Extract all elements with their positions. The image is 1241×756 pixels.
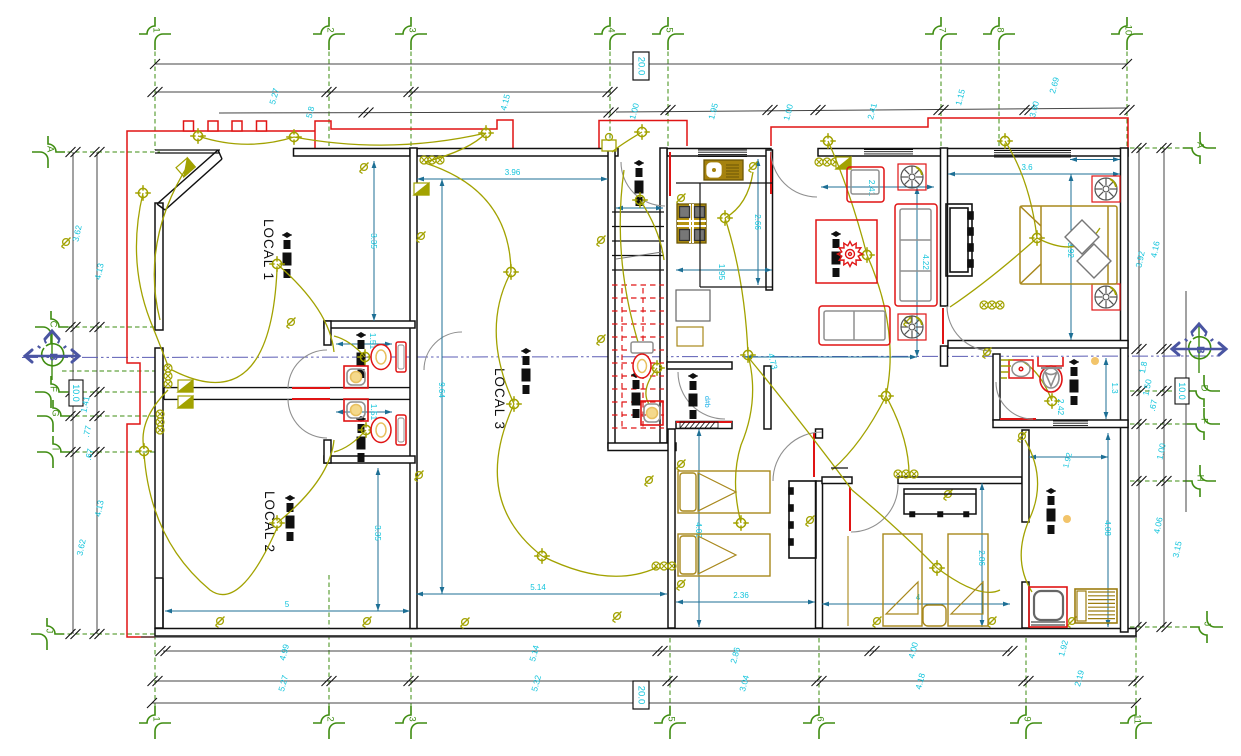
dot1 — [1063, 515, 1071, 523]
svg-text:3.35: 3.35 — [369, 233, 378, 249]
fan plant 2 — [898, 314, 926, 340]
walls — [141, 148, 1137, 637]
svg-text:LOCAL 1: LOCAL 1 — [261, 219, 276, 281]
svg-text:1.3: 1.3 — [1110, 382, 1119, 394]
dimension ticks — [66, 59, 1172, 708]
compass left B — [42, 344, 64, 366]
overall dim 20.0 bottom — [633, 681, 649, 709]
svg-text:2: 2 — [325, 27, 336, 32]
bell pair bedroom3 door — [894, 470, 918, 478]
svg-text:3.96: 3.96 — [505, 168, 521, 177]
svg-text:2.36: 2.36 — [733, 591, 749, 600]
bell pair local3 top — [420, 156, 444, 164]
bell pair bed3 — [652, 562, 676, 570]
svg-text:2.86: 2.86 — [977, 550, 986, 566]
svg-text:9.64: 9.64 — [437, 382, 446, 398]
tv unit wardrobe — [946, 204, 973, 276]
svg-text:20.0: 20.0 — [636, 686, 647, 705]
svg-text:5: 5 — [664, 27, 675, 32]
sink understairs — [641, 401, 663, 425]
svg-text:LOCAL 3: LOCAL 3 — [492, 368, 507, 430]
bell pair living — [815, 158, 839, 166]
fan plant 4 — [1092, 284, 1120, 310]
sink bath2 — [344, 399, 368, 421]
edge dim labels — [70, 76, 1183, 693]
dimension lines — [73, 64, 1186, 703]
switch flag 5 — [836, 157, 851, 169]
overall dim 10.0 left — [69, 380, 83, 406]
svg-text:3.35: 3.35 — [373, 525, 382, 541]
svg-text:A: A — [45, 146, 56, 153]
svg-text:3.6: 3.6 — [1021, 163, 1033, 172]
svg-text:3: 3 — [407, 716, 418, 721]
svg-text:1: 1 — [151, 27, 162, 32]
washing machine — [1029, 587, 1067, 627]
toilet bath1 — [371, 342, 406, 372]
bell pair entry — [980, 301, 1004, 309]
electrical panel stack 2 — [285, 495, 295, 541]
electrical panel stack 9 — [356, 332, 366, 378]
living room sofa set — [816, 167, 937, 345]
svg-text:10.0: 10.0 — [71, 384, 81, 402]
dot2 — [1091, 357, 1099, 365]
red facade line — [127, 118, 1128, 637]
svg-text:F: F — [48, 386, 59, 392]
svg-text:1: 1 — [151, 716, 162, 721]
svg-text:B: B — [1194, 346, 1206, 354]
sink bathTR — [1001, 360, 1033, 378]
electrical panel stack 4 — [634, 160, 644, 206]
entr bell — [602, 134, 616, 152]
switch flag 3 — [178, 396, 193, 408]
toilet bathTR — [1038, 357, 1063, 392]
fan plant 1 — [898, 164, 926, 190]
svg-text:20.0: 20.0 — [636, 57, 647, 76]
centerline B-B — [22, 356, 1222, 358]
threshold hatch — [680, 422, 718, 428]
svg-text:F: F — [1199, 418, 1210, 424]
gear flower — [838, 242, 863, 267]
electrical panel stack 7 — [1069, 359, 1079, 405]
red facade teeth — [184, 121, 194, 131]
door swing arcs — [288, 151, 1033, 532]
svg-text:J: J — [44, 629, 55, 634]
short line bedroom3 — [831, 467, 848, 469]
svg-text:B: B — [47, 353, 59, 361]
svg-text:D: D — [1199, 385, 1210, 392]
fan plant 3 — [1092, 176, 1120, 202]
switch flag 4 — [414, 183, 429, 195]
ceiling lights — [135, 124, 1060, 576]
wiring curves — [136, 132, 1100, 595]
svg-text:d#b: d#b — [703, 396, 710, 408]
svg-text:4.08: 4.08 — [1103, 520, 1112, 536]
bed bedroom3 — [848, 534, 988, 626]
svg-text:2.66: 2.66 — [753, 214, 762, 230]
switch flag 2 — [178, 380, 193, 392]
svg-text:5.14: 5.14 — [530, 583, 546, 592]
bed bedroom TR — [1020, 206, 1117, 284]
bed bedroom2 a — [678, 471, 770, 513]
electrical panel stack 10 — [356, 416, 366, 462]
overall dim 10.0 right — [1175, 378, 1189, 404]
svg-text:J: J — [1202, 622, 1213, 627]
electrical panel stack 5 — [688, 373, 698, 419]
svg-text:10.0: 10.0 — [1177, 382, 1187, 400]
electrical panel stack 8 — [1046, 488, 1056, 534]
svg-text:10: 10 — [1123, 25, 1134, 36]
svg-text:4: 4 — [606, 27, 617, 32]
electrical panel stack 1 — [282, 232, 292, 278]
bell stack left wall — [164, 364, 172, 388]
stairs — [612, 212, 664, 270]
svg-text:A: A — [1195, 142, 1206, 149]
toilet understairs — [631, 342, 653, 378]
receptacle symbols — [62, 162, 1077, 629]
shelf utility — [1075, 589, 1117, 623]
svg-text:2: 2 — [325, 716, 336, 721]
windows — [698, 150, 1088, 428]
svg-text:I: I — [50, 448, 61, 451]
svg-text:4.22: 4.22 — [921, 254, 930, 270]
toilet bath2 — [371, 415, 406, 445]
electrical panel stack 3 — [521, 348, 531, 394]
interior blue dimensions — [165, 157, 1120, 627]
compass right B — [1189, 337, 1211, 359]
electrical panel stack 11 — [631, 372, 641, 418]
svg-text:8: 8 — [995, 27, 1006, 32]
svg-text:6: 6 — [815, 716, 826, 721]
svg-text:5: 5 — [666, 716, 677, 721]
electrical panel stack 6 — [831, 231, 841, 277]
svg-text:9: 9 — [1022, 716, 1033, 721]
dresser bedroom3 — [904, 489, 976, 517]
bed bedroom2 b — [678, 534, 770, 576]
kitchen fixtures — [677, 160, 743, 243]
svg-text:C: C — [48, 321, 59, 328]
svg-text:5: 5 — [285, 600, 290, 609]
switch flag 1 — [176, 158, 195, 177]
red door jambs — [292, 152, 1036, 531]
svg-text:1.95: 1.95 — [717, 264, 727, 281]
overall dim 20.0 top — [633, 52, 649, 80]
sink bath1 — [344, 366, 368, 388]
svg-text:7: 7 — [937, 27, 948, 32]
svg-text:3: 3 — [407, 27, 418, 32]
wardrobe bedroom2 — [789, 481, 816, 558]
svg-text:G: G — [50, 409, 61, 416]
svg-text:11: 11 — [1132, 714, 1143, 724]
svg-text:H: H — [1195, 475, 1206, 482]
bell stack left wall 2 — [156, 410, 164, 434]
